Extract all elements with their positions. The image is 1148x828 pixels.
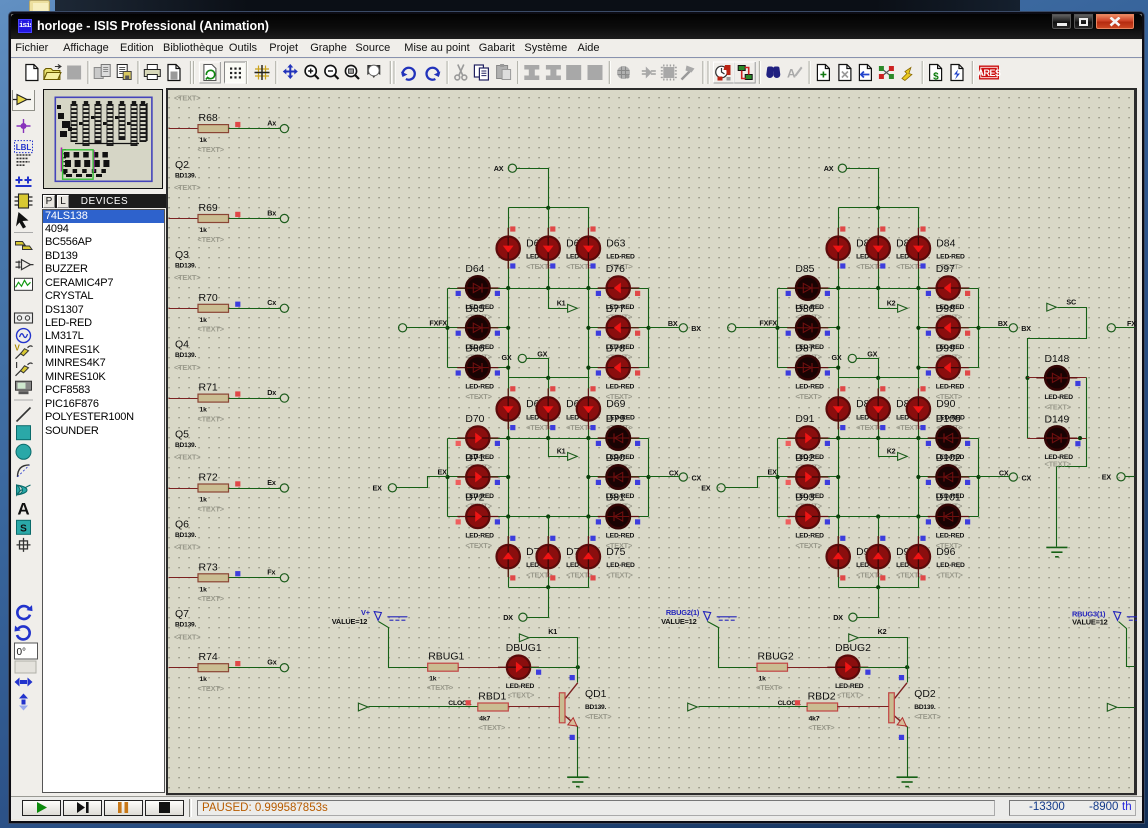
svg-text:<TEXT>: <TEXT> [526,262,553,271]
wire EX exit [1126,476,1135,478]
svg-text:LED-RED: LED-RED [465,533,494,540]
svg-text:<TEXT>: <TEXT> [808,723,835,732]
svg-text:<TEXT>: <TEXT> [198,414,225,423]
LED D62 [537,228,560,269]
svg-text:BD139.: BD139. [175,172,197,179]
svg-text:R68: R68 [199,112,218,124]
svg-text:D65: D65 [465,304,484,315]
svg-text:<TEXT>: <TEXT> [198,145,225,154]
resistor RBUG1 [428,651,465,683]
svg-text:<TEXT>: <TEXT> [795,392,822,401]
LED D87 [787,356,828,379]
svg-text:<TEXT>: <TEXT> [427,683,454,692]
state square collector [570,675,575,680]
resistor R69 [198,202,229,234]
svg-text:GX: GX [537,349,547,358]
wire D148 row [1028,377,1087,379]
rail B horizontal [778,288,979,290]
resistor RBD1 [478,691,509,723]
junctions lower rows [445,475,449,479]
LED D73 [497,536,520,577]
svg-text:<TEXT>: <TEXT> [606,541,633,550]
svg-text:1k: 1k [429,676,437,683]
state squares segment A [510,226,515,231]
LED D83 [867,228,890,269]
svg-text:4k7: 4k7 [479,716,490,723]
svg-text:CX: CX [1022,474,1032,483]
LED D64 [457,276,498,299]
top rail (segment A) [509,207,589,209]
left side rail upper [447,289,449,368]
svg-text:DX: DX [833,613,843,622]
LED D66 [457,356,498,379]
power annotation V+ [332,608,371,626]
svg-text:SC: SC [1066,298,1076,307]
svg-text:R74: R74 [199,651,218,663]
svg-text:<TEXT>: <TEXT> [837,691,864,700]
svg-text:<TEXT>: <TEXT> [465,392,492,401]
tag K1 lower [568,453,578,461]
svg-text:Gx: Gx [267,658,276,667]
wire EX jog to left rail [397,477,448,488]
svg-text:D91: D91 [795,414,814,425]
state squares segment D [510,536,515,541]
LED D96 [907,536,930,577]
svg-text:<TEXT>: <TEXT> [174,273,201,282]
wire tag branch K2 upper [879,289,898,309]
svg-text:CX: CX [692,474,702,483]
state square at R69 [235,212,240,217]
wire R68 to terminal Ax [229,128,281,130]
LED DBUG2 [827,656,868,679]
svg-text:Q7: Q7 [175,608,189,620]
svg-text:Q2: Q2 [175,159,189,171]
wire SC to colon rail [1028,308,1087,439]
rail C horizontal [509,377,589,379]
junction top rail [546,206,550,210]
svg-text:D148: D148 [1045,354,1070,365]
terminal Ax [280,125,288,133]
wire FXFX to left rail [407,327,448,329]
state square at R73 [235,571,240,576]
svg-text:D72: D72 [465,493,484,504]
svg-text:BD139.: BD139. [175,442,197,449]
wire RBUG2 to DBUG2 [788,667,836,669]
state square DBUG1 [536,670,541,675]
svg-text:R71: R71 [199,382,218,394]
junction D148 row [1025,376,1029,380]
svg-text:<TEXT>: <TEXT> [174,453,201,462]
wire R72 to terminal Ex [229,488,281,490]
svg-text:1k: 1k [200,497,208,504]
terminal Dx [280,394,288,402]
LED D63 [577,228,600,269]
power annotation RBUG3(1) [1072,609,1108,626]
terminal EX in [717,484,725,492]
terminal Fx [280,574,288,582]
svg-text:1k: 1k [200,227,208,234]
LED D78 [598,356,639,379]
wire tag K1 to collector node [530,638,578,668]
terminal Cx [280,304,288,312]
svg-text:D77: D77 [606,304,625,315]
svg-text:Ex: Ex [267,478,276,487]
wire AX to top rail [517,169,549,208]
svg-text:1k: 1k [200,407,208,414]
state square at R68 [235,122,240,127]
svg-text:LED-RED: LED-RED [465,384,494,391]
svg-text:<TEXT>: <TEXT> [856,423,883,432]
LED D99 [928,356,969,379]
svg-text:K1: K1 [557,447,566,456]
LED D82 [827,228,850,269]
svg-text:S: S [20,523,27,534]
terminal Ex [280,484,288,492]
svg-text:LBL: LBL [16,143,32,152]
svg-text:D76: D76 [606,264,625,275]
svg-text:<TEXT>: <TEXT> [174,363,201,372]
state square at R74 [235,661,240,666]
segment G verticals [508,378,510,439]
svg-text:<TEXT>: <TEXT> [936,392,963,401]
wire DBUG2 to collector node [860,667,908,669]
svg-text:D98: D98 [936,304,955,315]
terminal FXFX exit right [1107,324,1115,332]
wire AX to top rail [847,169,879,208]
svg-text:<TEXT>: <TEXT> [465,541,492,550]
wire feed into R73 [169,577,199,579]
svg-text:R72: R72 [199,472,218,484]
state squares segment F [456,291,461,296]
wire GX to rail C [857,359,879,378]
svg-text:D85: D85 [795,264,814,275]
state squares segment F [786,291,791,296]
transistor QD2 [889,683,907,727]
row 6 horizontal full [448,516,649,518]
junction collector node [905,665,909,669]
LED D69 [577,388,600,429]
vertical V1 railB to railC [508,289,510,378]
svg-text:D81: D81 [606,493,625,504]
terminal BX out [649,327,680,329]
wire collector [577,668,579,683]
LED D68 [537,388,560,429]
svg-text:V: V [15,344,21,353]
LED D75 [577,536,600,577]
rail D horizontal [778,438,979,440]
svg-text:Q6: Q6 [175,518,189,530]
wire clock into RBD2 [699,706,808,708]
wire R70 to terminal Cx [229,308,281,310]
svg-text:BX: BX [998,319,1008,328]
svg-text:QD2: QD2 [914,689,936,700]
row B wires [919,327,979,329]
LED D97 [928,276,969,299]
svg-text:AX: AX [494,164,504,173]
LED D91 [787,426,828,449]
state square D149 [1075,441,1080,446]
wire segment A verticals [838,208,840,289]
svg-text:<TEXT>: <TEXT> [526,423,553,432]
wire emitter to ground [577,727,579,777]
svg-text:Q5: Q5 [175,428,189,440]
label DBUG2 [835,643,871,699]
state square at R72 [235,481,240,486]
state squares segment G [840,386,845,391]
verticals V1 V3 lower [838,439,840,517]
svg-text:LED-RED: LED-RED [936,562,965,569]
wire rail F down to DX [548,588,550,618]
svg-text:FX: FX [1127,319,1136,328]
svg-text:1k: 1k [200,676,208,683]
V+ symbol RBUG3 [1114,612,1147,621]
right side rail lower [648,439,650,517]
transistor QD1 [559,683,577,727]
wire tag branch K1 upper [549,289,568,309]
svg-text:BD139.: BD139. [175,532,197,539]
svg-text:LED-RED: LED-RED [606,533,635,540]
state square emitter [899,735,904,740]
svg-text:RBD2: RBD2 [808,691,836,703]
terminal Gx [280,664,288,672]
desktop dark window strip behind [55,0,1020,12]
svg-text:Q3: Q3 [175,249,189,261]
row F wires [448,327,509,329]
tag K2 [849,634,859,642]
terminal FXFX [728,324,736,332]
right side rail lower [978,439,980,517]
wire DX to vertical [858,617,879,619]
LED D148 [1036,366,1077,389]
LED D92 [787,465,828,488]
wire clock exit [1118,707,1135,709]
svg-text:<TEXT>: <TEXT> [856,262,883,271]
wire feed into R68 [169,128,199,130]
svg-text:R69: R69 [199,202,218,214]
svg-text:<TEXT>: <TEXT> [174,543,201,552]
svg-text:D93: D93 [795,493,814,504]
segment D verticals [508,517,510,588]
terminal DX [849,613,857,621]
svg-text:<TEXT>: <TEXT> [198,504,225,513]
svg-text:<TEXT>: <TEXT> [896,262,923,271]
wire RBUG1 to DBUG1 [459,667,507,669]
rail F horizontal [839,587,919,589]
svg-text:D63: D63 [606,239,625,250]
terminal CX out [649,476,680,478]
junctions rail B [506,286,510,290]
svg-text:K2: K2 [887,447,896,456]
rail D horizontal [448,438,649,440]
state squares segment A [840,226,845,231]
power annotation RBUG2(1) [661,608,700,626]
wire RBUG3 exit [1119,622,1135,667]
wire RBD1 to base [509,706,560,708]
svg-text:<TEXT>: <TEXT> [174,632,201,641]
wire rail F down to DX [878,588,880,618]
svg-text:D101: D101 [936,493,961,504]
svg-text:FXFX: FXFX [429,319,447,328]
svg-text:D99: D99 [936,344,955,355]
svg-text:1k: 1k [759,676,767,683]
svg-text:<TEXT>: <TEXT> [856,571,883,580]
state squares segment E [786,441,791,446]
svg-text:<TEXT>: <TEXT> [795,541,822,550]
state squares segment C [926,441,931,446]
svg-text:LED-RED: LED-RED [835,683,864,690]
LED D98 [928,316,969,339]
svg-text:<TEXT>: <TEXT> [585,712,612,721]
verticals V1 V3 lower [508,439,510,517]
svg-text:K1: K1 [557,298,566,307]
svg-text:Bx: Bx [267,208,276,217]
tag K1 upper [568,304,578,312]
svg-text:D70: D70 [465,414,484,425]
LED D84 [907,228,930,269]
LED D94 [827,536,850,577]
terminal GX [518,354,526,362]
svg-text:<TEXT>: <TEXT> [526,571,553,580]
svg-text:4k7: 4k7 [809,716,820,723]
LED D86 [787,316,828,339]
rail F horizontal [509,587,589,589]
svg-text:D149: D149 [1045,414,1070,425]
svg-text:EX: EX [372,484,382,493]
terminal CX out [979,476,1010,478]
LED D95 [867,536,890,577]
svg-text:AX: AX [824,164,834,173]
svg-text:V+: V+ [361,608,371,617]
rail B horizontal [448,288,649,290]
LED D102 [928,465,969,488]
svg-text:BD139.: BD139. [914,704,936,711]
svg-text:<TEXT>: <TEXT> [1045,459,1072,468]
svg-text:<TEXT>: <TEXT> [566,571,593,580]
svg-text:K2: K2 [878,627,887,636]
junctions side rows [445,326,449,330]
svg-text:BD139.: BD139. [175,622,197,629]
svg-text:R73: R73 [199,561,218,573]
state squares segment E [456,441,461,446]
wire V+ down to RBUG2 [708,622,757,668]
ground below QD2 [897,777,918,786]
state square at R70 [235,302,240,307]
junction D149 row [1078,436,1082,440]
vertical V1 railB to railC [838,289,840,378]
junctions rail D [506,436,510,440]
LED D76 [598,276,639,299]
svg-text:K2: K2 [887,298,896,307]
svg-text:<TEXT>: <TEXT> [1045,403,1072,412]
wire D149 row [1028,438,1087,440]
svg-text:<TEXT>: <TEXT> [756,683,783,692]
state squares segment B [596,291,601,296]
desktop folder icon [29,0,50,11]
wire FXFX exit [1116,327,1135,329]
svg-text:LED-RED: LED-RED [606,384,635,391]
row E wires [778,476,839,478]
LED D88 [827,388,850,429]
LED D67 [497,388,520,429]
svg-text:EX: EX [767,467,777,476]
svg-text:Fx: Fx [267,568,275,577]
svg-text:<TEXT>: <TEXT> [198,325,225,334]
svg-text:LED-RED: LED-RED [795,384,824,391]
row 6 horizontal full [778,516,979,518]
terminal DX [519,613,527,621]
svg-text:VALUE=12: VALUE=12 [1072,618,1108,627]
wire tag branch K1 lower [549,439,568,457]
svg-text:D97: D97 [936,264,955,275]
svg-text:<TEXT>: <TEXT> [198,594,225,603]
terminal EX in [388,484,396,492]
svg-text:VALUE=12: VALUE=12 [661,617,697,626]
svg-text:D87: D87 [795,344,814,355]
state square clock [466,700,471,705]
svg-text:<TEXT>: <TEXT> [606,392,633,401]
row B wires [589,327,649,329]
LED D85 [787,276,828,299]
resistor R70 [198,292,229,324]
wire R69 to terminal Bx [229,218,281,220]
junction rail C [876,376,880,380]
LED D72 [457,505,498,528]
svg-text:BD139.: BD139. [175,262,197,269]
resistor RBD2 [807,691,838,723]
left side rail upper [777,289,779,368]
LED D101 [928,505,969,528]
svg-text:<TEXT>: <TEXT> [198,235,225,244]
svg-text:LED-RED: LED-RED [1045,394,1074,401]
ground below QD1 [567,777,588,786]
wire RBD2 to base [838,706,889,708]
svg-text:Q4: Q4 [175,339,189,351]
terminal Bx [280,214,288,222]
wire FXFX to left rail [736,327,778,329]
svg-text:D78: D78 [606,344,625,355]
vertical V3 railB to railC [918,289,920,378]
svg-text:EX: EX [701,484,711,493]
svg-text:Cx: Cx [267,298,276,307]
wire DX to vertical [528,617,549,619]
resistor RBUG2 [757,651,794,683]
svg-text:0°: 0° [17,647,27,658]
svg-text:GX: GX [867,349,877,358]
LED D65 [457,316,498,339]
svg-text:BD139.: BD139. [585,704,607,711]
svg-text:EX: EX [437,467,447,476]
svg-text:BX: BX [668,319,678,328]
junction rail F [876,585,880,589]
svg-text:D71: D71 [465,453,484,464]
wire tag branch K2 lower [879,439,898,457]
svg-text:<TEXT>: <TEXT> [174,93,201,102]
terminal FXFX [399,324,407,332]
wire feed into R70 [169,308,199,310]
LED D79 [598,426,639,449]
svg-text:1k: 1k [200,317,208,324]
svg-text:D86: D86 [795,304,814,315]
label QD2 [914,689,941,721]
wire tag K2 to collector node [860,638,908,668]
wire EX jog to left rail [726,477,778,488]
row C wires [919,476,979,478]
state squares segment D [840,536,845,541]
terminal BX out [979,327,1010,329]
junction rail F [546,585,550,589]
svg-text:RBUG2: RBUG2 [758,651,794,663]
svg-text:RBUG1: RBUG1 [428,651,464,663]
